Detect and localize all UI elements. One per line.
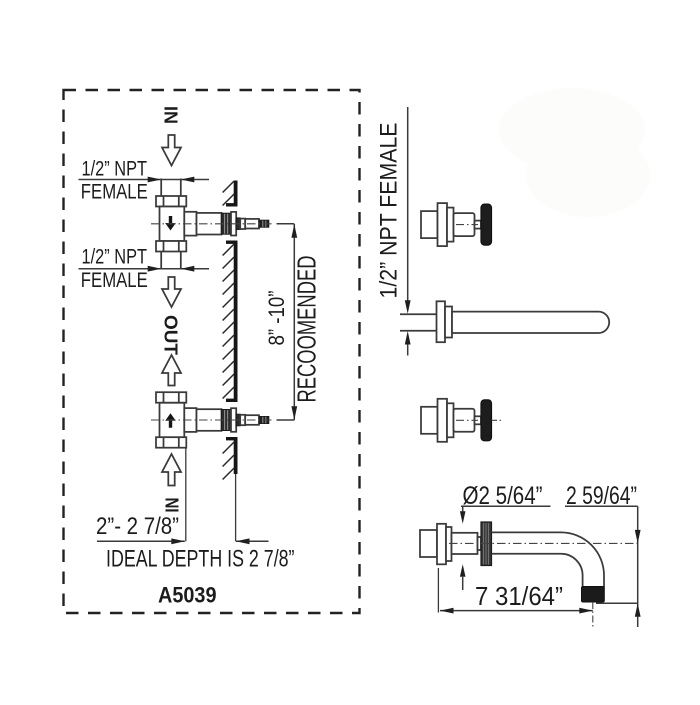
cartridge cylinder xyxy=(197,409,222,431)
wall hatch xyxy=(223,374,235,386)
wall section line xyxy=(234,181,238,207)
pipe above top valve xyxy=(160,179,162,197)
svg-text:FEMALE: FEMALE xyxy=(81,269,148,292)
wall hatch xyxy=(223,468,235,480)
spout2 centerline horizontal xyxy=(449,542,638,544)
cartridge threads xyxy=(222,213,232,234)
wall extension line to dimension xyxy=(235,474,237,541)
handle step xyxy=(447,208,454,242)
stem splined tip xyxy=(259,417,269,424)
handle flange xyxy=(438,399,448,442)
cartridge ring xyxy=(231,408,236,432)
arrowhead right at outlet centerline xyxy=(579,608,593,614)
svg-text:1/2” NPT: 1/2” NPT xyxy=(82,246,148,269)
cartridge block xyxy=(236,414,240,426)
handle barrel xyxy=(454,213,475,236)
handle barrel xyxy=(454,409,475,432)
cartridge hex xyxy=(240,219,245,229)
valve stem xyxy=(245,219,259,229)
valve hex nut (bottom) xyxy=(156,241,186,252)
handle socket xyxy=(421,211,438,238)
spout2 knurled ring xyxy=(481,522,492,566)
handle centerline xyxy=(456,224,478,226)
valve hex nut (top) xyxy=(156,392,186,403)
arrowhead at pipe right xyxy=(181,266,195,272)
spout1 flange xyxy=(437,301,446,342)
handle step xyxy=(447,403,454,437)
wall hatch xyxy=(223,387,235,399)
wall hatch xyxy=(223,244,235,256)
dashed border box xyxy=(64,90,360,613)
svg-text:1/2” NPT: 1/2” NPT xyxy=(82,158,148,181)
wall hatch xyxy=(223,361,235,373)
arrowhead up at outlet bottom xyxy=(635,603,641,617)
pipe below top valve xyxy=(160,252,162,270)
valve body xyxy=(160,207,185,242)
underline of 2 59/64 joining vertical dim xyxy=(565,505,638,507)
underline of diameter label xyxy=(461,505,551,507)
spout2 outlet centerline vertical xyxy=(592,602,594,627)
valve centerline xyxy=(151,223,272,225)
cartridge shoulder xyxy=(184,408,196,432)
spout1 inlet pipe xyxy=(400,313,437,315)
wall hatch xyxy=(223,455,235,467)
IN arrow (up, bottom) xyxy=(162,454,181,486)
handle centerline xyxy=(456,419,478,421)
arrowhead at pipe right xyxy=(181,177,195,183)
spout2 cylinder xyxy=(452,533,478,554)
svg-text:IN: IN xyxy=(163,498,183,513)
arrowhead down xyxy=(291,406,297,420)
arrowhead left at wall line xyxy=(236,538,250,544)
outlet bottom extension line xyxy=(596,602,638,604)
dimension line right part xyxy=(236,540,269,542)
wall hatch xyxy=(223,194,235,206)
arrowhead right at valve line xyxy=(171,538,185,544)
wall hatch xyxy=(223,181,235,193)
wall hatch xyxy=(223,322,235,334)
spout2 mini step xyxy=(478,537,482,550)
spout2 aerator xyxy=(582,587,605,603)
svg-text:IN: IN xyxy=(161,106,181,124)
wall hatch xyxy=(223,309,235,321)
vertical dimension line right xyxy=(637,506,639,627)
arrowhead up xyxy=(291,224,297,238)
spout2 step xyxy=(446,527,452,561)
OUT arrow (down) xyxy=(162,277,181,307)
svg-text:RECOOMENDED: RECOOMENDED xyxy=(292,256,322,403)
cartridge cylinder xyxy=(197,213,222,235)
vertical dimension line 8-10 xyxy=(293,224,295,420)
flow direction arrow xyxy=(165,413,176,428)
svg-text:2”- 2 7/8”: 2”- 2 7/8” xyxy=(96,513,179,540)
vertical dimension line xyxy=(407,107,409,301)
spout2 tube and elbow xyxy=(492,532,605,587)
stem splined tip xyxy=(259,220,269,227)
svg-text:OUT: OUT xyxy=(161,315,181,355)
down arrow to flange top xyxy=(462,506,464,512)
cartridge block xyxy=(236,218,240,230)
cartridge ring xyxy=(231,212,236,236)
spout1 step xyxy=(445,307,452,338)
OUT arrow (up) xyxy=(162,355,181,386)
wall hatch xyxy=(223,335,235,347)
flange extension line xyxy=(437,568,439,613)
valve body xyxy=(160,403,185,438)
flow direction arrow xyxy=(165,216,176,231)
arrowhead at pipe left xyxy=(148,266,162,272)
arrowhead left at flange line xyxy=(440,608,454,614)
dimension line left part xyxy=(97,540,185,542)
wall hatch xyxy=(223,296,235,308)
valve hex nut (bottom) xyxy=(156,437,186,448)
extension line from valve xyxy=(185,448,187,542)
leader from top valve stem xyxy=(277,223,295,225)
valve stem xyxy=(245,415,259,425)
arrowhead down at pipe top xyxy=(405,300,411,314)
svg-text:IDEAL DEPTH IS 2 7/8”: IDEAL DEPTH IS 2 7/8” xyxy=(106,546,295,573)
handle stem xyxy=(475,221,482,229)
cartridge threads xyxy=(222,410,232,431)
svg-text:8” -10”: 8” -10” xyxy=(264,291,289,346)
spout2 socket xyxy=(420,530,437,557)
wall hatch xyxy=(223,348,235,360)
svg-text:1/2” NPT FEMALE: 1/2” NPT FEMALE xyxy=(376,123,403,299)
arrowhead down at centerline xyxy=(635,530,641,544)
svg-text:A5039: A5039 xyxy=(158,583,217,608)
cartridge hex xyxy=(240,415,245,425)
valve centerline xyxy=(151,419,272,421)
svg-text:FEMALE: FEMALE xyxy=(81,181,148,204)
wall hatch xyxy=(223,270,235,282)
wall hatch xyxy=(223,283,235,295)
wall hatch xyxy=(223,257,235,269)
handle knob xyxy=(481,400,492,441)
IN flow arrow (down) xyxy=(162,135,181,166)
svg-text:7 31/64”: 7 31/64” xyxy=(475,581,563,611)
handle socket xyxy=(421,407,438,434)
leader from bottom valve stem xyxy=(277,419,295,421)
wall hatch xyxy=(223,442,235,454)
handle flange xyxy=(438,203,448,246)
faint smudge xyxy=(499,88,645,172)
wall section line xyxy=(234,241,238,403)
arrowhead up at pipe bottom xyxy=(405,331,411,345)
spout2 flange xyxy=(437,524,446,565)
cartridge shoulder xyxy=(184,212,196,236)
handle stem xyxy=(475,416,482,424)
spout1 tube with rounded end xyxy=(452,312,609,333)
arrowhead at pipe left xyxy=(148,177,162,183)
leader line second xyxy=(79,268,210,270)
valve hex nut (top) xyxy=(156,196,186,207)
leader line top xyxy=(79,179,210,181)
wall section line xyxy=(234,437,238,474)
dimension line 7 31/64 xyxy=(440,610,593,612)
up arrow to flange bottom xyxy=(460,564,466,577)
handle knob xyxy=(481,204,492,245)
